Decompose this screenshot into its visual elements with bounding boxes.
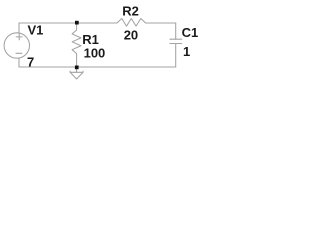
ground triangle <box>70 71 83 79</box>
wire right vertical (C1 top lead) <box>175 23 177 39</box>
svg-text:C1: C1 <box>182 25 199 40</box>
wire left vertical (V1 bottom lead) <box>18 58 20 67</box>
ground stem <box>76 67 78 72</box>
wire left vertical (V1 top lead) <box>18 23 20 33</box>
svg-text:V1: V1 <box>28 23 44 38</box>
wire top-left horizontal <box>19 22 117 24</box>
svg-text:7: 7 <box>27 55 34 70</box>
wire bottom horizontal <box>19 66 176 68</box>
resistor R2 body <box>117 19 146 27</box>
capacitor C1 top plate <box>170 38 182 40</box>
V1 plus sign <box>16 34 22 40</box>
junction dot bottom (R1/ground/bottom wire) <box>75 66 79 70</box>
resistor R1 body <box>72 23 81 67</box>
wire right vertical (C1 bottom lead) <box>175 44 177 68</box>
svg-text:20: 20 <box>124 27 138 42</box>
wire top-right horizontal <box>146 22 176 24</box>
voltage source V1 circle <box>4 33 29 58</box>
svg-text:1: 1 <box>183 44 190 59</box>
svg-text:100: 100 <box>84 46 106 61</box>
svg-text:R2: R2 <box>122 3 139 18</box>
junction dot top (R1/top wire) <box>75 21 79 25</box>
capacitor C1 bottom plate <box>170 43 182 45</box>
V1 minus sign <box>16 52 22 54</box>
